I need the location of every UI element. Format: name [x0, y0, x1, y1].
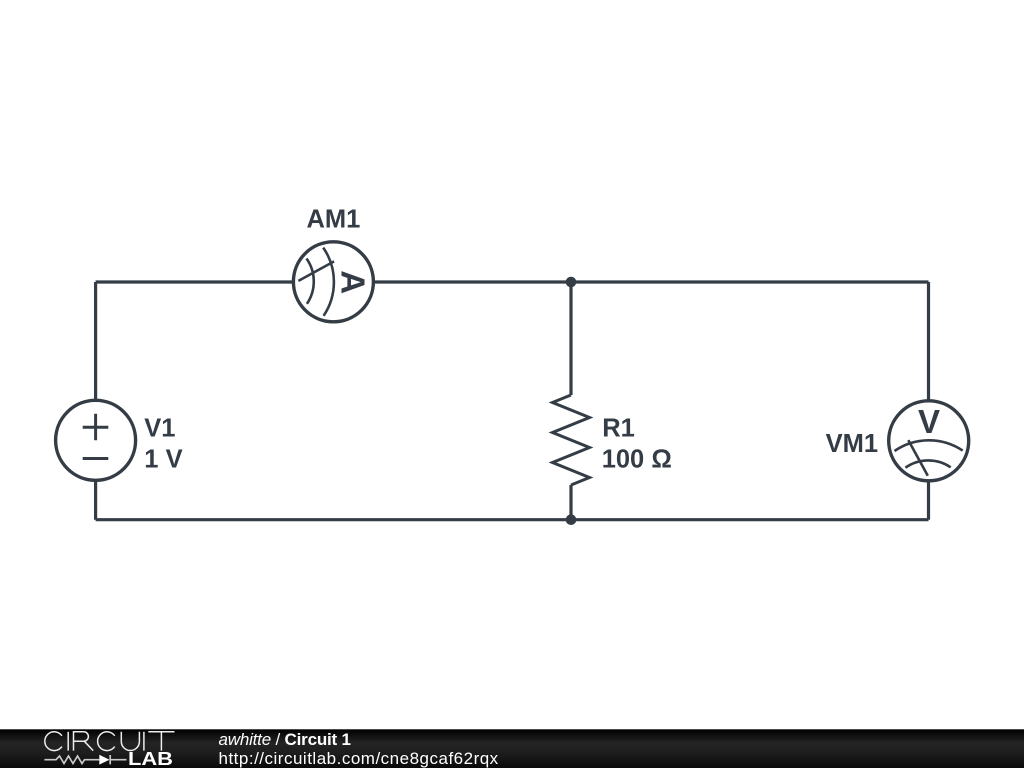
wire resistor branch lower	[569, 485, 572, 520]
AM1 meter scale outer arc	[323, 248, 334, 316]
wire left vertical	[94, 282, 97, 520]
logo resistor-diode strip	[44, 755, 126, 764]
node B (bottom junction)	[566, 514, 577, 525]
svg-text:AM1: AM1	[306, 206, 360, 234]
VM1 meter scale outer arc	[895, 440, 963, 451]
logo CIRCUIT wordmark	[45, 732, 175, 751]
svg-text:V: V	[918, 403, 940, 440]
AM1 body circle	[293, 242, 373, 322]
V1 minus polarity mark	[83, 457, 109, 460]
wire right vertical	[927, 282, 930, 520]
svg-text:LAB: LAB	[128, 749, 173, 768]
node A (top junction)	[566, 277, 577, 288]
VM1 meter scale inner arc	[905, 460, 950, 467]
footer bar	[0, 729, 1024, 768]
svg-text:A: A	[334, 270, 371, 294]
V1 plus polarity mark	[83, 414, 109, 440]
AM1 meter scale inner arc	[307, 259, 314, 304]
wire resistor branch upper	[569, 282, 572, 395]
AM1 meter needle	[298, 261, 334, 281]
voltmeter VM1	[889, 401, 969, 481]
svg-text:awhitte / Circuit 1: awhitte / Circuit 1	[219, 730, 351, 749]
svg-text:http://circuitlab.com/cne8gcaf: http://circuitlab.com/cne8gcaf62rqx	[219, 749, 499, 768]
voltage source V1	[56, 400, 136, 480]
VM1 meter needle	[908, 440, 928, 476]
VM1 body circle	[889, 401, 969, 481]
wire bottom rail	[96, 518, 929, 521]
V1 body circle	[56, 400, 136, 480]
logo diode triangle	[99, 755, 109, 765]
svg-text:VM1: VM1	[826, 430, 878, 458]
wire top rail	[96, 280, 929, 283]
svg-text:1 V: 1 V	[144, 446, 182, 474]
svg-text:100 Ω: 100 Ω	[602, 445, 672, 473]
ammeter AM1	[293, 242, 373, 322]
resistor R1	[553, 395, 590, 485]
svg-text:R1: R1	[602, 415, 635, 443]
svg-text:V1: V1	[144, 415, 175, 443]
